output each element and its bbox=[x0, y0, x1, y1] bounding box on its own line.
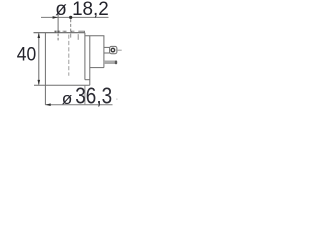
arrowhead ø36,3 left (points left) bbox=[45, 103, 50, 106]
rim tick d bbox=[71, 31, 73, 33]
hidden line left edge of bore bbox=[57, 34, 59, 42]
svg-text:36,3: 36,3 bbox=[75, 82, 112, 107]
body top edge with left extension bbox=[34, 32, 85, 34]
terminator dot ø18,2 right bbox=[69, 16, 72, 19]
rim tick b bbox=[58, 31, 60, 33]
rim tick a bbox=[54, 31, 56, 33]
terminal 2 (bottom tab, grey filled) bbox=[104, 61, 117, 65]
top rim line segment 1 bbox=[54, 30, 60, 32]
dimension line ø36,3 (bottom horizontal) bbox=[45, 104, 112, 106]
body bottom edge with left extension bbox=[34, 84, 90, 86]
top rim line segment 2 bbox=[63, 30, 67, 32]
arrowhead 40 top (points up) bbox=[38, 33, 41, 38]
rim tick c bbox=[64, 31, 66, 33]
centre line (dashed vertical) bbox=[68, 35, 70, 76]
top rim line segment 4 bbox=[78, 30, 85, 32]
terminal 1 stub line bbox=[117, 49, 122, 51]
connector left edge bbox=[89, 36, 91, 85]
body left edge + ø36,3 left extension bbox=[44, 33, 46, 105]
dimension line ø18,2 (top horizontal) bbox=[41, 16, 109, 18]
body right edge bbox=[84, 33, 86, 80]
arrowhead ø18,2 left (points right) bbox=[53, 16, 58, 19]
dimension line 40 (left vertical) bbox=[38, 33, 40, 84]
extension line left of ø18,2 bore bbox=[57, 15, 59, 33]
svg-text:ø: ø bbox=[62, 90, 73, 107]
svg-text:ø 18,2: ø 18,2 bbox=[55, 0, 109, 20]
connector bottom edge bbox=[90, 67, 104, 69]
svg-text:40: 40 bbox=[17, 44, 37, 66]
terminal 1 lower edge bbox=[104, 52, 110, 54]
background bbox=[0, 0, 126, 107]
hidden line right edge of bore bbox=[70, 34, 72, 38]
step ledge bottom right bbox=[85, 79, 90, 81]
terminal 1 (top tab) upper edge bbox=[104, 46, 110, 48]
connector right edge bbox=[103, 36, 105, 68]
terminal 1 hole ring bbox=[111, 48, 115, 52]
connector top plate bbox=[85, 35, 105, 37]
terminal 1 end cap bbox=[110, 46, 117, 53]
arrowhead 40 bottom (points down) bbox=[38, 80, 41, 85]
short hidden line right feature bbox=[77, 34, 79, 40]
rim tick e bbox=[83, 31, 85, 33]
faint mark right of text bbox=[116, 99, 117, 100]
top rim line segment 3 bbox=[70, 30, 74, 32]
ø36,3 right extension line bbox=[84, 85, 86, 105]
terminal 2 dark end cap bbox=[115, 61, 117, 65]
extension line right of ø18,2 bore (dashed) bbox=[70, 19, 72, 33]
